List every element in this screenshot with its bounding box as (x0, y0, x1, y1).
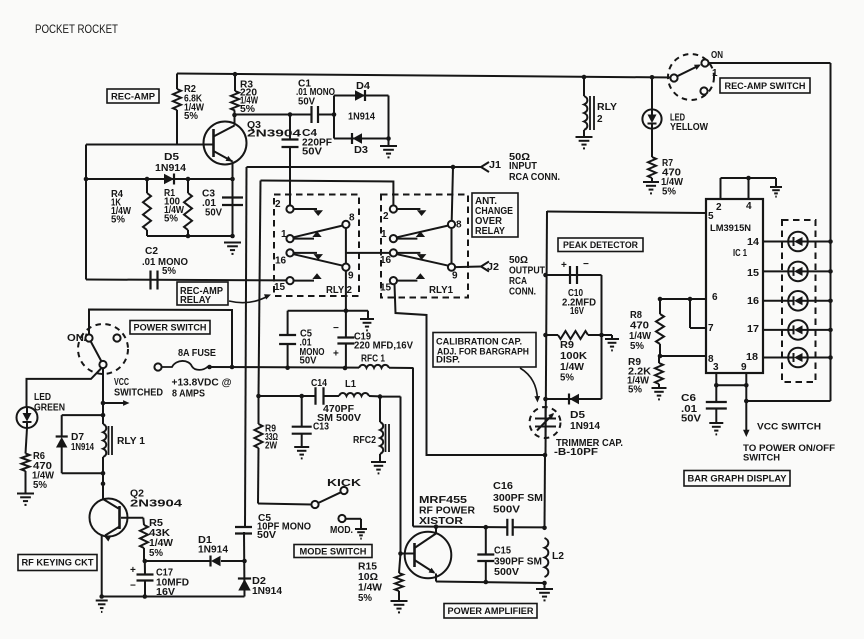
svg-text:8: 8 (349, 213, 355, 224)
svg-text:SWITCHED: SWITCHED (114, 388, 163, 399)
svg-text:VCC: VCC (114, 377, 129, 388)
svg-text:MRF455: MRF455 (419, 495, 468, 506)
svg-text:8: 8 (456, 220, 462, 231)
svg-text:RF POWER: RF POWER (419, 506, 476, 517)
svg-text:16: 16 (275, 256, 287, 267)
svg-text:−: − (333, 323, 339, 334)
svg-text:18: 18 (746, 352, 758, 363)
svg-text:RF KEYING CKT: RF KEYING CKT (22, 558, 95, 568)
svg-text:RFC2: RFC2 (353, 435, 376, 446)
svg-text:500V: 500V (493, 505, 520, 516)
svg-text:5%: 5% (628, 385, 642, 396)
svg-text:1: 1 (281, 229, 287, 240)
svg-text:50V: 50V (681, 414, 701, 425)
svg-text:C14: C14 (311, 378, 327, 389)
svg-text:MOD.: MOD. (330, 525, 353, 536)
svg-text:R15: R15 (358, 562, 377, 573)
svg-text:RCA: RCA (509, 276, 527, 287)
svg-text:LM3915N: LM3915N (710, 223, 751, 233)
svg-text:CALIBRATION CAP.: CALIBRATION CAP. (436, 337, 522, 347)
svg-text:D3: D3 (354, 145, 368, 156)
svg-text:1: 1 (712, 68, 718, 79)
svg-text:15: 15 (747, 268, 759, 279)
svg-text:5%: 5% (560, 373, 574, 384)
svg-text:2W: 2W (265, 441, 277, 452)
svg-text:XISTOR: XISTOR (419, 516, 464, 527)
svg-text:+: + (333, 349, 339, 360)
svg-text:5%: 5% (630, 341, 644, 352)
svg-text:D5: D5 (164, 152, 179, 163)
svg-text:D4: D4 (356, 81, 370, 92)
svg-text:50V: 50V (302, 147, 322, 158)
svg-text:RLY1: RLY1 (429, 285, 453, 296)
svg-text:1/4W: 1/4W (358, 583, 383, 594)
svg-text:4: 4 (746, 201, 752, 212)
svg-text:16: 16 (380, 255, 392, 266)
svg-text:5: 5 (708, 211, 714, 222)
svg-text:1: 1 (381, 229, 387, 240)
svg-text:5%: 5% (149, 548, 163, 559)
svg-text:+: + (130, 565, 136, 576)
svg-text:REC-AMP SWITCH: REC-AMP SWITCH (725, 81, 806, 92)
svg-text:J1: J1 (489, 160, 501, 171)
svg-text:BAR GRAPH DISPLAY: BAR GRAPH DISPLAY (688, 474, 788, 485)
svg-text:IC 1: IC 1 (733, 248, 747, 259)
svg-text:16: 16 (747, 296, 759, 307)
svg-text:9: 9 (348, 271, 354, 282)
svg-text:C15: C15 (494, 546, 511, 557)
svg-text:5%: 5% (164, 214, 178, 225)
svg-text:50V: 50V (257, 530, 276, 541)
svg-text:5%: 5% (662, 187, 676, 198)
svg-text:6: 6 (712, 292, 718, 303)
svg-text:INPUT: INPUT (509, 161, 537, 172)
svg-text:REC-AMP: REC-AMP (111, 91, 156, 102)
svg-text:SWITCH: SWITCH (743, 453, 780, 464)
svg-text:CONN.: CONN. (509, 287, 536, 298)
svg-text:3: 3 (713, 362, 719, 373)
svg-text:50V: 50V (298, 97, 315, 108)
svg-text:17: 17 (747, 324, 759, 335)
svg-text:VCC SWITCH: VCC SWITCH (757, 422, 821, 433)
svg-text:1N914: 1N914 (155, 163, 186, 174)
svg-text:10Ω: 10Ω (358, 572, 378, 583)
svg-text:L1: L1 (345, 379, 356, 390)
svg-text:RLY 1: RLY 1 (117, 436, 145, 447)
svg-text:8A FUSE: 8A FUSE (178, 348, 216, 359)
svg-text:470: 470 (630, 321, 649, 332)
svg-text:KICK: KICK (327, 478, 362, 489)
svg-text:50V: 50V (300, 356, 317, 367)
svg-text:220 MFD,16V: 220 MFD,16V (354, 341, 413, 352)
svg-text:100K: 100K (560, 351, 588, 362)
svg-text:1N914: 1N914 (71, 442, 94, 453)
svg-text:14: 14 (747, 237, 759, 248)
svg-text:50V: 50V (205, 208, 222, 219)
svg-text:RLY 2: RLY 2 (326, 285, 352, 296)
svg-text:500V: 500V (494, 567, 519, 578)
svg-text:5%: 5% (358, 593, 372, 604)
svg-text:RELAY: RELAY (475, 226, 505, 237)
svg-text:5%: 5% (33, 480, 47, 491)
svg-text:−: − (583, 259, 589, 270)
svg-text:C16: C16 (493, 481, 513, 492)
svg-text:PEAK DETECTOR: PEAK DETECTOR (563, 240, 638, 251)
svg-text:15: 15 (274, 282, 286, 293)
svg-text:9: 9 (452, 271, 458, 282)
svg-text:R8: R8 (630, 310, 642, 321)
svg-text:RELAY: RELAY (180, 295, 211, 306)
svg-text:2N3904: 2N3904 (247, 129, 302, 140)
svg-text:C6: C6 (681, 393, 696, 404)
svg-text:D5: D5 (570, 410, 585, 421)
svg-text:ON: ON (711, 50, 723, 61)
svg-text:MODE SWITCH: MODE SWITCH (300, 546, 367, 557)
svg-text:+13.8VDC @: +13.8VDC @ (172, 378, 232, 389)
svg-text:5%: 5% (162, 266, 176, 277)
svg-text:C2: C2 (145, 246, 158, 257)
svg-text:1N914: 1N914 (570, 421, 600, 432)
svg-text:7: 7 (708, 323, 714, 334)
svg-text:-B-10PF: -B-10PF (554, 447, 598, 458)
svg-text:50Ω: 50Ω (509, 255, 528, 266)
svg-text:16V: 16V (570, 306, 584, 317)
svg-text:5%: 5% (240, 104, 255, 115)
svg-text:1N914: 1N914 (252, 586, 282, 597)
svg-text:2: 2 (383, 211, 389, 222)
svg-text:POWER AMPLIFIER: POWER AMPLIFIER (448, 606, 534, 617)
svg-text:POWER SWITCH: POWER SWITCH (134, 323, 207, 334)
svg-text:2: 2 (597, 114, 603, 125)
svg-text:+: + (561, 260, 567, 271)
svg-text:1N914: 1N914 (348, 112, 375, 123)
svg-text:L2: L2 (552, 551, 564, 562)
svg-text:ON/: ON/ (67, 333, 87, 344)
svg-text:390PF SM: 390PF SM (494, 557, 542, 568)
svg-text:1N914: 1N914 (198, 545, 228, 556)
svg-text:8 AMPS: 8 AMPS (172, 389, 205, 400)
svg-text:J2: J2 (487, 262, 499, 273)
svg-text:2: 2 (716, 202, 722, 213)
svg-text:RLY: RLY (597, 102, 617, 113)
svg-text:2: 2 (275, 199, 281, 210)
svg-text:DISP.: DISP. (436, 355, 460, 365)
svg-text:2N3904: 2N3904 (130, 499, 183, 510)
svg-text:RFC 1: RFC 1 (361, 354, 385, 365)
svg-text:R9: R9 (560, 340, 574, 351)
svg-text:GREEN: GREEN (34, 403, 65, 414)
svg-text:C13: C13 (313, 422, 329, 433)
svg-text:15: 15 (380, 283, 392, 294)
svg-text:OUTPUT: OUTPUT (509, 266, 545, 277)
svg-text:300PF SM: 300PF SM (493, 493, 543, 504)
svg-text:5%: 5% (111, 215, 125, 226)
svg-text:LED: LED (34, 392, 51, 403)
svg-text:−: − (130, 581, 136, 592)
svg-text:RCA CONN.: RCA CONN. (509, 172, 560, 183)
svg-text:9: 9 (741, 362, 747, 373)
svg-text:POCKET ROCKET: POCKET ROCKET (35, 24, 118, 36)
svg-text:YELLOW: YELLOW (670, 122, 708, 133)
svg-text:1/4W: 1/4W (560, 362, 585, 373)
svg-text:5%: 5% (184, 111, 198, 122)
